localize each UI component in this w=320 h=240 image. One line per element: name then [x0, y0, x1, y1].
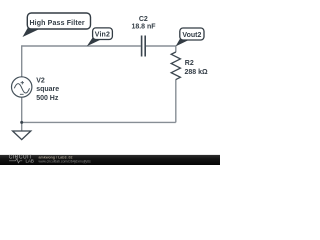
wire right vertical lower (R2 bottom to corner) [175, 79, 177, 122]
wire top-left horizontal (Vin2 net) [22, 45, 141, 47]
svg-text:LAB: LAB [26, 159, 34, 164]
svg-text:R2: R2 [185, 60, 194, 67]
svg-text:500 Hz: 500 Hz [36, 95, 59, 102]
wire right vertical upper (corner to R2 top) [175, 45, 177, 52]
svg-text:Vin2: Vin2 [95, 31, 110, 38]
svg-text:V2: V2 [36, 78, 45, 85]
wire V2 bottom to junction [21, 97, 23, 122]
svg-text:288 kΩ: 288 kΩ [185, 69, 209, 76]
svg-text:C2: C2 [139, 16, 148, 23]
capacitor C2 [142, 36, 146, 57]
svg-text:Vout2: Vout2 [182, 32, 201, 39]
node flag Vin2 [87, 28, 113, 46]
note flag "High Pass Filter" [23, 13, 91, 37]
wire top-right horizontal (Vout2 net) [146, 45, 176, 47]
watermark bar [0, 155, 220, 165]
resistor R2 [171, 52, 180, 80]
wire bottom horizontal [22, 121, 176, 123]
voltage source V2 [12, 77, 32, 97]
svg-text:18.8 nF: 18.8 nF [131, 24, 156, 31]
wire left vertical (top corner to V2 top) [21, 45, 23, 77]
wire ground stub [21, 122, 23, 130]
ground [13, 131, 31, 140]
svg-text:High Pass Filter: High Pass Filter [29, 20, 84, 27]
node flag Vout2 [176, 28, 204, 46]
junction dot at bottom-left node [20, 121, 23, 124]
svg-text:www.circuitlab.com/c/b4jdxmujf: www.circuitlab.com/c/b4jdxmujfy6s [39, 160, 91, 164]
svg-text:square: square [36, 86, 59, 93]
